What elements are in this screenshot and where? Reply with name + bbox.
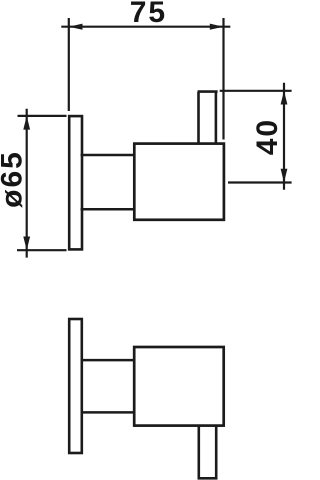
dimension ø65: dimension line [26, 109, 28, 258]
svg-text:ø65: ø65 [0, 150, 28, 208]
svg-text:75: 75 [130, 0, 167, 29]
dimension 75: left extension line [68, 18, 70, 111]
dimension ø65: value label [0, 150, 28, 208]
dimension 40: dimension line [283, 83, 285, 190]
handle spigot (side view) [198, 92, 218, 144]
dimension 40: up arrowhead [281, 91, 288, 105]
svg-text:40: 40 [251, 118, 284, 155]
dimension 75: dimension line [61, 26, 230, 28]
stem lower line (side view) [81, 208, 136, 211]
valve body (side view) [134, 144, 224, 220]
dimension 75: left arrowhead [69, 24, 83, 30]
wall flange (front/bottom view) [69, 319, 82, 453]
valve body (bottom view) [134, 347, 224, 426]
dimension 40: top extension line [220, 90, 292, 92]
stem lower line (bottom view) [81, 411, 136, 414]
stem upper line (bottom view) [81, 359, 136, 362]
dimension 75: value label [130, 0, 167, 29]
dimension ø65: up arrowhead [23, 116, 30, 130]
dimension ø65: bottom extension line [17, 249, 67, 251]
dimension ø65: down arrowhead [23, 237, 30, 251]
dimension 40: down arrowhead [281, 169, 288, 183]
dimension 40: value label [251, 118, 284, 155]
wall flange (side view) [69, 116, 82, 249]
dimension 75: right arrowhead [210, 24, 224, 30]
stem upper line (side view) [81, 154, 136, 157]
dimension 40: bottom extension line [228, 181, 292, 183]
dimension ø65: top extension line [18, 115, 67, 117]
dimension 75: right extension line [222, 18, 224, 140]
handle spigot pointing down (bottom view) [198, 426, 218, 479]
